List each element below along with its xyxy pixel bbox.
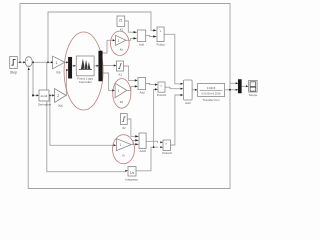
svg-text:Product: Product (157, 43, 166, 46)
arrowhead into Product input 1 (153, 29, 157, 31)
wire demux out2 to K1 block (102, 65, 114, 67)
wire Product1m to big Add (165, 87, 180, 89)
svg-text:Product2: Product2 (162, 152, 172, 155)
svg-text:Integrator: Integrator (125, 178, 138, 182)
gain Kd1 (115, 83, 127, 104)
arrowhead into Add input 2 (134, 37, 138, 39)
wire integrator riser to Product1m (154, 89, 155, 147)
gain Kd (55, 89, 66, 108)
svg-text:Controller: Controller (79, 80, 92, 84)
ellipse annotation Kp (111, 31, 130, 55)
svg-text:–: – (28, 63, 30, 67)
arrowhead into demux (97, 65, 99, 67)
wire demux out3 to Kd1 gain (102, 73, 113, 90)
svg-text:0.0216: 0.0216 (207, 86, 216, 90)
junction on step output (branch to scope) (19, 61, 21, 63)
svg-text:K1: K1 (119, 72, 123, 76)
ellipse annotation Ki (113, 135, 135, 164)
arrowhead into scope mux bottom input (236, 89, 239, 91)
wire Product1 down to big Add (164, 34, 180, 84)
arrowhead into sum bottom input (feedback) (28, 67, 30, 70)
svg-text:Add: Add (140, 90, 145, 94)
wire Add to Product1 (146, 35, 153, 38)
svg-text:21: 21 (119, 19, 123, 23)
wire K1 block to Add1 (124, 66, 135, 80)
arrowhead into gain Kp (113, 39, 116, 41)
wire Add2 to Product2 (146, 141, 158, 142)
svg-text:Ka: Ka (57, 71, 61, 75)
K1 saturation-like block mid (117, 61, 124, 76)
wire derivative to Kd gain (49, 94, 52, 96)
arrowhead into big Add input 1 (181, 83, 184, 85)
svg-text:1: 1 (118, 89, 120, 93)
svg-text:K2: K2 (122, 126, 126, 130)
integrator block (125, 167, 138, 182)
transfer fcn block (198, 84, 225, 102)
arrowhead into mux bottom input (66, 69, 68, 71)
fuzzy logic controller block (76, 56, 94, 84)
arrowhead into block K1 (114, 64, 117, 66)
add2 block (139, 133, 147, 153)
arrowhead into Add1 input 1 (135, 79, 138, 81)
junction at derivative input corner (32, 94, 34, 96)
arrowhead into transfer fcn (195, 89, 198, 91)
K2 constant block (121, 114, 128, 131)
arrowhead into gain Kd1 (112, 89, 115, 91)
gain Ki (116, 139, 131, 158)
add block top (137, 30, 145, 46)
arrowhead into gain Ka (51, 61, 53, 63)
arrowhead into gain Ki (114, 144, 117, 146)
svg-text:Kp: Kp (120, 47, 124, 51)
ellipse annotation big (fuzzy) (64, 32, 103, 110)
arrowhead into Add2 input 2 (135, 139, 139, 141)
arrowhead into mux top input (66, 61, 68, 63)
svg-text:+: + (26, 59, 28, 63)
svg-text:K1: K1 (120, 27, 124, 31)
junction on derivative output (branch down to Ki) (49, 95, 51, 97)
wire Product2 up to big Add (171, 95, 181, 145)
wire mux to scope (241, 85, 246, 87)
sum junction (25, 57, 32, 67)
arrowhead into derivative (37, 94, 39, 96)
svg-text:Ki: Ki (122, 154, 125, 158)
arrowhead into Add2 input 3 (135, 143, 139, 145)
arrowhead into sum left input (23, 61, 25, 63)
svg-text:1: 1 (118, 39, 120, 43)
arrowhead into Add1 input 2 (135, 85, 138, 87)
wire error branch down to integrator (47, 62, 126, 171)
svg-text:0.0102s²+0.2018: 0.0102s²+0.2018 (202, 93, 221, 96)
wire transfer fcn out to junction and mux (225, 89, 236, 91)
arrowhead into scope mux top input (236, 82, 239, 84)
wire fuzzy to demux (94, 65, 97, 67)
demux (99, 51, 103, 81)
junction on plant output (feedback branch) (229, 89, 231, 91)
wire sum output (32, 61, 51, 63)
add1 block mid (138, 78, 146, 95)
big add block (184, 80, 193, 105)
svg-text:Add: Add (185, 101, 191, 105)
svg-text:1/s: 1/s (130, 171, 135, 175)
arrowhead into fuzzy controller (74, 65, 76, 67)
wire derivative branch down to Ki gain (50, 95, 114, 145)
arrowhead into integrator (125, 170, 128, 172)
wire Add1 to Product1m (146, 84, 155, 85)
svg-text:du/dt: du/dt (41, 94, 48, 98)
junction on error wire (branch down to Derivative) (32, 61, 34, 63)
arrowhead into Product input 2 (153, 35, 157, 37)
wire error branch down into derivative (33, 62, 37, 95)
svg-text:Transfer Fcn: Transfer Fcn (203, 98, 220, 102)
ellipse annotation Kd1 (113, 79, 131, 109)
arrowhead into Add2 input 1 (135, 135, 139, 137)
product2 block (162, 140, 172, 155)
constant block [2 1] (117, 16, 125, 31)
arrowhead into Product2 input 2 (160, 146, 163, 148)
arrowhead into gain Kd (52, 94, 54, 96)
svg-text:Kd: Kd (59, 104, 63, 108)
wire mux to fuzzy (72, 65, 74, 67)
arrowhead into scope (246, 85, 249, 87)
junction on integrator output riser (153, 146, 155, 148)
arrowhead into Product1 input 2 (155, 88, 158, 90)
wire Kp gain to Add (126, 38, 134, 40)
wire error branch up to product1 (48, 12, 153, 62)
wire Ka gain to mux (65, 61, 67, 63)
wire step output (17, 61, 23, 63)
wire Kd gain up to mux (65, 70, 67, 95)
arrowhead into big Add input 3 (181, 94, 184, 96)
svg-text:Step: Step (10, 71, 17, 75)
svg-text:Product1: Product1 (157, 94, 167, 97)
gain Kp (116, 35, 126, 51)
svg-text:Scope: Scope (249, 93, 258, 97)
svg-text:Kd: Kd (120, 100, 124, 104)
wire big Add to transfer fcn (192, 89, 195, 91)
wire Kd1 gain to Add1 (127, 86, 135, 90)
arrowhead into Product2 input 1 (160, 141, 163, 143)
scope mux (238, 80, 241, 94)
svg-text:Add1: Add1 (140, 149, 147, 153)
wire integrator to Product2 (136, 147, 158, 171)
wire K2 down to Add2 (127, 119, 135, 136)
arrowhead into Product1 input 1 (155, 84, 158, 86)
svg-text:Add: Add (139, 42, 144, 46)
svg-text:Derivative: Derivative (38, 103, 52, 107)
wire constant to Add top (125, 21, 134, 32)
mux 1 (68, 57, 71, 78)
wire Add2 input3 stub (133, 143, 135, 145)
arrowhead into big Add input 2 (181, 88, 184, 90)
wire outer top loop: step branch to scope mux, and output down to bottom loop (20, 4, 230, 189)
gain Ka (53, 56, 65, 74)
wire junction stub to scope mux top (230, 82, 236, 84)
wire Ki gain to Add2 (131, 140, 135, 144)
product1m block mid (157, 82, 167, 97)
scope block (249, 81, 258, 98)
junction on error wire (branch up to Product) (47, 61, 49, 63)
product1 block top (157, 27, 166, 46)
derivative block (38, 90, 52, 107)
wire demux out1 to Kp gain (102, 40, 113, 53)
step source block (10, 57, 18, 75)
svg-text:1: 1 (120, 143, 122, 147)
arrowhead into Add input 1 (134, 31, 138, 33)
